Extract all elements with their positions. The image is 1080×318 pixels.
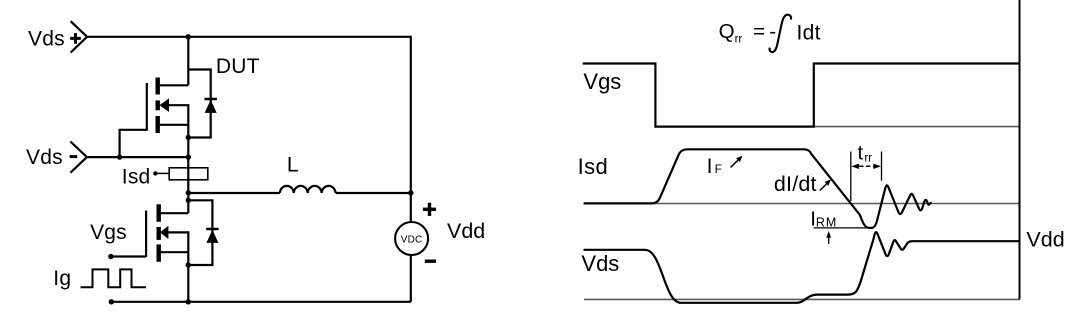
svg-text:=: =: [753, 20, 765, 43]
svg-text:Ig: Ig: [53, 267, 71, 290]
svg-text:Isd: Isd: [578, 154, 609, 179]
svg-text:I: I: [707, 155, 713, 178]
svg-text:Vds: Vds: [26, 146, 63, 169]
svg-text:Vgs: Vgs: [90, 221, 127, 244]
svg-text:rr: rr: [864, 152, 872, 164]
svg-text:F: F: [715, 162, 722, 176]
svg-text:VDC: VDC: [401, 234, 423, 245]
svg-text:Vdd: Vdd: [447, 219, 485, 243]
svg-text:t: t: [858, 142, 864, 165]
svg-text:Isd: Isd: [122, 166, 151, 189]
svg-text:dI/dt: dI/dt: [774, 172, 817, 196]
svg-text:Vds: Vds: [581, 251, 619, 276]
svg-text:-: -: [769, 20, 776, 43]
svg-text:DUT: DUT: [216, 55, 260, 78]
svg-text:Idt: Idt: [797, 21, 821, 44]
svg-text:Vdd: Vdd: [1026, 228, 1064, 252]
svg-text:RM: RM: [816, 216, 837, 230]
svg-text:Vgs: Vgs: [583, 69, 621, 94]
svg-text:L: L: [287, 154, 299, 177]
svg-text:Q: Q: [719, 20, 735, 43]
svg-text:Vds: Vds: [28, 27, 65, 50]
svg-text:rr: rr: [735, 33, 743, 45]
